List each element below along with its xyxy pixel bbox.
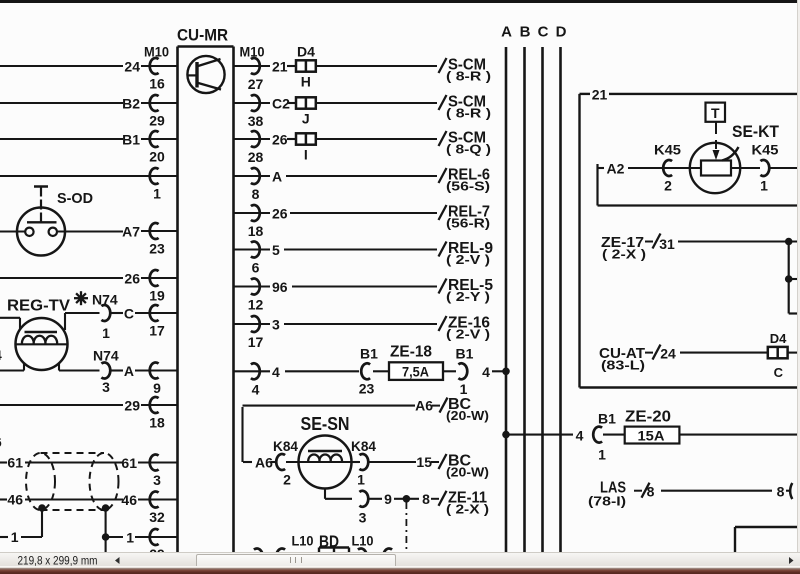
CU-MR left pin row A7/23 wire+connector [122, 223, 177, 257]
label 4 fragment left edge [0, 347, 2, 363]
svg-text:A2: A2 [607, 161, 625, 177]
svg-text:1: 1 [760, 178, 768, 194]
connector D4 cell row H [287, 60, 316, 89]
svg-text:(20-W): (20-W) [446, 408, 489, 423]
svg-text:4: 4 [0, 347, 2, 363]
svg-text:( 2-X ): ( 2-X ) [602, 247, 646, 262]
top border wire [0, 0, 798, 3]
wire REG-TV bottom-right to A [59, 363, 123, 396]
fuse ZE-18 row [285, 344, 506, 398]
CU-MR left pin row 61/3 wire+connector [121, 455, 177, 489]
svg-text:6: 6 [0, 434, 2, 450]
label N74 top [92, 292, 118, 308]
svg-text:A: A [124, 363, 134, 379]
svg-text:( 8-R ): ( 8-R ) [446, 106, 491, 121]
CU-MR left pin row /1 wire+connector [0, 168, 178, 202]
CU-MR right pin row 96/12 wire+connector [234, 279, 288, 313]
CU-MR right pin row C2/38 wire+connector [234, 95, 291, 129]
label S-OD [57, 190, 93, 207]
scrollbar thumb [196, 554, 396, 569]
svg-text:1: 1 [598, 447, 606, 463]
bus line C [538, 24, 549, 553]
svg-text:T: T [711, 105, 720, 121]
connector label M10 left [144, 44, 169, 60]
label 21 on box edge [592, 87, 608, 103]
svg-text:1: 1 [102, 325, 110, 341]
CU-MR left pin row A/9 wire+connector [124, 362, 178, 396]
asterisk symbol [74, 291, 88, 305]
svg-text:CU-MR: CU-MR [177, 26, 228, 45]
svg-text:B1: B1 [598, 411, 616, 427]
svg-text:A: A [272, 169, 282, 185]
CU-MR right pin row 21/27 wire+connector [234, 58, 288, 92]
svg-text:61: 61 [7, 455, 23, 471]
svg-text:(78-I): (78-I) [588, 494, 626, 509]
connector D4 cell row I [287, 133, 316, 162]
dash-dot ground line [405, 502, 407, 552]
scrollbar right arrow [788, 556, 798, 568]
wire REG-TV top-left [0, 318, 20, 330]
wire REG-TV bottom-left [0, 363, 24, 371]
svg-text:REG-TV: REG-TV [7, 298, 70, 315]
svg-text:D4: D4 [770, 331, 787, 346]
svg-text:28: 28 [248, 149, 264, 165]
scrollbar grip [290, 557, 302, 563]
connector D4 cell C [768, 331, 797, 380]
wire from LAS [588, 480, 792, 509]
wire to REL-9 ( 2-V ) [284, 240, 493, 267]
svg-text:96: 96 [272, 279, 288, 295]
svg-text:L10: L10 [352, 533, 374, 549]
svg-text:3: 3 [102, 379, 110, 395]
svg-text:A6: A6 [415, 398, 433, 414]
wire from ZE-17 [601, 234, 797, 262]
label REG-TV [7, 298, 70, 315]
svg-text:(20-W): (20-W) [446, 465, 489, 480]
svg-text:2: 2 [664, 178, 672, 194]
svg-text:D: D [556, 24, 567, 41]
junction dot bus A ZE-18 [502, 368, 510, 376]
bus line A [501, 24, 512, 553]
svg-text:8: 8 [252, 186, 260, 202]
svg-text:M10: M10 [240, 44, 265, 60]
svg-text:17: 17 [248, 334, 264, 350]
label L10 left [292, 533, 314, 549]
svg-text:6: 6 [252, 260, 260, 276]
svg-text:1: 1 [357, 472, 365, 488]
svg-text:4: 4 [482, 364, 490, 380]
CU-MR right pin row A/8 wire+connector [234, 168, 283, 202]
svg-text:L10: L10 [292, 533, 314, 549]
svg-text:H: H [301, 74, 311, 90]
wire to REL-7 (56-R) [290, 204, 490, 231]
svg-text:J: J [302, 111, 310, 127]
svg-text:ZE-20: ZE-20 [625, 409, 671, 426]
svg-text:29: 29 [149, 113, 165, 129]
svg-text:3: 3 [272, 317, 280, 333]
CU-MR left pin row 1/ wire+connector [126, 529, 177, 546]
svg-text:16: 16 [149, 76, 165, 92]
svg-text:B: B [520, 24, 531, 41]
svg-text:A7: A7 [122, 224, 140, 240]
svg-text:C: C [774, 365, 784, 380]
wire to REL-6 (56-S) [286, 167, 490, 194]
dashed actuator line [713, 122, 720, 160]
component BD box top [319, 548, 349, 553]
svg-text:M10: M10 [144, 44, 169, 60]
svg-text:B2: B2 [122, 96, 140, 112]
partial connector arcs bottom [254, 549, 392, 565]
svg-text:B1: B1 [122, 132, 140, 148]
CU-MR left pin row B1/20 wire+connector [0, 131, 178, 165]
junction dot ZE-11 node [403, 495, 411, 503]
svg-text:38: 38 [248, 113, 264, 129]
wire to ZE-11 [410, 490, 489, 517]
CU-MR left pin row 29/18 wire+connector [0, 397, 178, 431]
CU-MR right pin row 5/6 wire+connector [234, 242, 281, 276]
CU-MR left pin row 24/16 wire+connector [0, 58, 178, 91]
CU-MR right pin row 26/18 wire+connector [234, 205, 288, 239]
svg-text:K84: K84 [351, 438, 376, 454]
CU-MR left pin row B2/29 wire+connector [0, 95, 178, 129]
control unit CU-MR box [178, 47, 234, 553]
svg-text:26: 26 [272, 206, 288, 222]
svg-text:26: 26 [124, 271, 140, 287]
svg-text:19: 19 [149, 288, 165, 304]
label N74 above A [93, 348, 119, 364]
svg-text:1: 1 [126, 530, 134, 546]
svg-text:20: 20 [149, 149, 165, 165]
wire 61 through shield [0, 455, 123, 471]
svg-text:8: 8 [647, 484, 655, 500]
wire to ZE-16 ( 2-V ) [284, 315, 490, 342]
wire from CU-AT [599, 345, 768, 373]
connector D4 cell row J [287, 97, 316, 126]
svg-text:A: A [501, 24, 512, 41]
junction dot bus A ZE-20 [502, 431, 510, 439]
svg-text:24: 24 [124, 59, 140, 75]
relay SE-KT [688, 143, 758, 193]
svg-text:( 2-V ): ( 2-V ) [446, 327, 490, 342]
svg-text:18: 18 [149, 415, 165, 431]
wire to S-CM ( 8-Q ) [316, 130, 491, 157]
wire to S-CM ( 8-R ) [316, 57, 491, 84]
svg-text:D4: D4 [297, 44, 315, 60]
svg-text:SE-KT: SE-KT [732, 122, 780, 141]
svg-text:5: 5 [272, 242, 280, 258]
CU-MR left pin row 46/32 wire+connector [121, 491, 177, 525]
transistor symbol in CU-MR [187, 56, 224, 93]
wire SE-SN to BC top [243, 396, 490, 462]
wire 46 through shield [0, 492, 123, 508]
wire REG-TV top-right to C [65, 305, 123, 341]
svg-text:8: 8 [777, 484, 785, 500]
svg-text:N74: N74 [93, 348, 119, 364]
wire A2 to SE-KT [598, 142, 689, 206]
svg-text:27: 27 [248, 76, 264, 92]
svg-text:S-OD: S-OD [57, 190, 93, 207]
svg-text:15A: 15A [638, 428, 665, 444]
svg-text:32: 32 [149, 509, 165, 525]
svg-text:24: 24 [660, 346, 676, 362]
svg-text:2: 2 [283, 472, 291, 488]
window right edge [797, 0, 800, 566]
wire to REL-5 ( 2-Y ) [292, 277, 493, 304]
status text [0, 552, 140, 570]
svg-text:4: 4 [576, 428, 584, 444]
svg-text:(83-L): (83-L) [601, 358, 645, 373]
CU-MR right pin row 4/4 wire+connector [234, 363, 281, 397]
svg-text:8: 8 [422, 491, 430, 507]
shield drain wire left [0, 508, 42, 545]
svg-text:12: 12 [248, 297, 264, 313]
svg-text:4: 4 [272, 364, 280, 380]
svg-text:C: C [538, 24, 549, 41]
svg-text:B1: B1 [360, 346, 378, 362]
svg-text:(56-R): (56-R) [446, 216, 490, 231]
junction dot shield left [38, 504, 46, 512]
svg-text:B1: B1 [456, 346, 474, 362]
svg-text:17: 17 [149, 323, 165, 339]
CU-MR left pin row C/17 wire+connector [124, 305, 178, 339]
svg-text:( 2-X ): ( 2-X ) [446, 502, 489, 517]
window bottom maroon strip [0, 566, 800, 574]
label 6 fragment left edge [0, 434, 2, 450]
junction dots right bus [785, 238, 797, 314]
svg-text:9: 9 [384, 491, 392, 507]
svg-text:SE-SN: SE-SN [301, 414, 350, 434]
svg-text:1: 1 [460, 381, 468, 397]
svg-text:15: 15 [416, 454, 432, 470]
sensor SE-SN [243, 436, 376, 489]
wire S-OD to A7 [57, 230, 123, 232]
svg-text:26: 26 [272, 132, 288, 148]
scrollbar left arrow [114, 556, 124, 568]
CU-MR right pin row 26/28 wire+connector [234, 131, 288, 165]
label BD [319, 532, 339, 551]
svg-text:46: 46 [121, 492, 137, 508]
label CU-MR [177, 26, 228, 45]
bottom right box corner [735, 527, 797, 552]
shielded cable dashed screen [26, 453, 119, 510]
svg-text:( 2-Y ): ( 2-Y ) [446, 289, 490, 304]
svg-text:46: 46 [7, 492, 23, 508]
wire SE-SN pin1 to BC [368, 453, 489, 480]
svg-text:(56-S): (56-S) [446, 179, 490, 194]
partial label 29 bottom [149, 546, 165, 562]
label L10 right [352, 533, 374, 549]
svg-text:7,5A: 7,5A [402, 364, 429, 380]
svg-text:3: 3 [153, 472, 161, 488]
CU-MR left pin row 26/19 wire+connector [0, 270, 178, 304]
svg-text:23: 23 [149, 241, 165, 257]
status bar [0, 552, 800, 567]
svg-text:K45: K45 [752, 142, 779, 158]
shield drain wire right [102, 508, 123, 552]
svg-text:I: I [304, 147, 308, 163]
svg-text:4: 4 [252, 381, 260, 397]
wire into S-OD [0, 230, 25, 232]
CU-MR right pin row 3/17 wire+connector [234, 316, 281, 350]
connector label M10 right [240, 44, 265, 60]
svg-text:31: 31 [659, 236, 675, 252]
svg-text:K45: K45 [654, 142, 681, 158]
bus line D [556, 24, 567, 553]
svg-text:29: 29 [124, 398, 140, 414]
svg-text:9: 9 [153, 380, 161, 396]
junction dot shield right [102, 504, 110, 512]
wire SE-KT pin1 [740, 142, 797, 194]
bus line B [520, 24, 531, 553]
svg-text:21: 21 [592, 87, 608, 103]
svg-text:( 8-R ): ( 8-R ) [446, 69, 491, 84]
svg-text:1: 1 [11, 529, 19, 545]
label SE-SN [301, 414, 350, 434]
thermo T box [706, 103, 726, 122]
svg-text:1: 1 [153, 186, 161, 202]
svg-text:( 2-V ): ( 2-V ) [446, 252, 490, 267]
fuse ZE-20 row [506, 409, 797, 463]
svg-text:( 8-Q ): ( 8-Q ) [446, 142, 491, 157]
svg-text:C: C [124, 306, 134, 322]
svg-text:ZE-18: ZE-18 [390, 344, 432, 361]
svg-text:3: 3 [359, 510, 367, 526]
wire to S-CM ( 8-R ) [316, 94, 491, 121]
switch S-OD [17, 187, 65, 256]
relay box outline [580, 94, 798, 388]
svg-text:23: 23 [359, 381, 375, 397]
svg-text:61: 61 [121, 455, 137, 471]
return wire to edge [598, 204, 798, 206]
wire SE-SN pin3 [325, 489, 403, 526]
svg-text:A6: A6 [255, 455, 273, 471]
svg-text:K84: K84 [273, 438, 298, 454]
svg-text:18: 18 [248, 223, 264, 239]
regulator REG-TV [16, 318, 68, 370]
connector D4 label [297, 44, 315, 60]
label SE-KT [732, 122, 780, 141]
svg-text:21: 21 [272, 59, 288, 75]
